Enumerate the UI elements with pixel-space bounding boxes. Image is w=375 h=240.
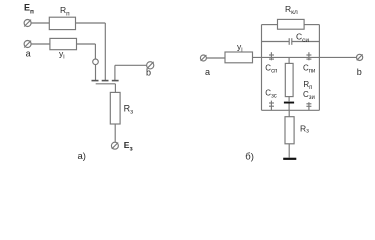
svg-text:b: b [357, 67, 362, 77]
svg-text:Rз: Rз [124, 103, 134, 115]
svg-text:а): а) [78, 151, 86, 162]
svg-text:Eз: Eз [124, 140, 134, 152]
svg-text:Eп: Eп [24, 3, 34, 16]
svg-text:Rкл: Rкл [285, 4, 298, 16]
svg-text:Rз: Rз [300, 123, 309, 134]
svg-text:Rп: Rп [60, 5, 70, 17]
svg-text:Спи: Спи [303, 64, 315, 75]
svg-text:Сзи: Сзи [303, 90, 315, 101]
svg-text:а: а [205, 67, 210, 77]
svg-text:Сзс: Сзс [265, 89, 276, 100]
svg-text:b: b [146, 68, 151, 78]
svg-text:б): б) [245, 151, 254, 162]
svg-text:а: а [26, 49, 31, 59]
svg-text:Ссп: Ссп [265, 64, 277, 75]
